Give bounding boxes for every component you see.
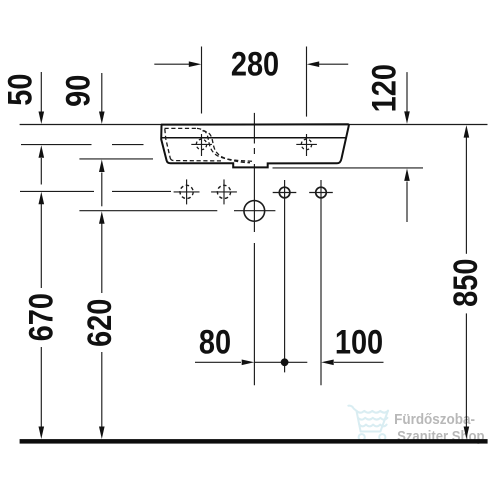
junction dot on line B	[281, 358, 289, 366]
svg-text:100: 100	[335, 322, 383, 361]
dimension 850	[465, 138, 467, 428]
level line L2 (50 target)	[21, 144, 92, 146]
drain centerline (line A)	[253, 113, 255, 144]
80 arrow tail	[195, 361, 241, 363]
svg-text:670: 670	[21, 293, 60, 341]
bowl top dashed	[165, 127, 198, 129]
wall hole circle right	[309, 187, 333, 198]
level line L4 (670 target)	[20, 190, 94, 192]
hidden bowl contour (dashed)	[165, 128, 253, 162]
sink bottom extension line L6 (120 target)	[273, 167, 424, 169]
100 arrow tail	[334, 361, 384, 363]
svg-text:50: 50	[0, 73, 39, 105]
svg-text:80: 80	[199, 322, 231, 361]
280 arrowheads	[189, 61, 202, 67]
dimension 90	[101, 73, 103, 206]
washbasin rim line	[161, 137, 345, 139]
280 extension line left	[201, 47, 203, 114]
floor line	[20, 439, 488, 444]
svg-text:620: 620	[80, 299, 119, 347]
100 arrowhead	[321, 360, 334, 366]
80 arrowhead	[242, 360, 255, 366]
washbasin outline	[161, 124, 349, 167]
dimension 50	[40, 72, 42, 185]
280 extension line right	[306, 47, 308, 117]
bowl right wall inner dashed curve	[203, 131, 251, 163]
wall hole centerline (line C)	[320, 180, 322, 385]
dimension 120	[406, 72, 408, 222]
svg-text:120: 120	[364, 64, 403, 112]
wall hole circle left	[273, 187, 297, 198]
svg-text:90: 90	[58, 75, 97, 107]
drain hole circle	[244, 201, 265, 222]
main line work	[20, 125, 488, 211]
wall top reference line L1	[20, 124, 488, 126]
bowl bottom dashed	[170, 158, 221, 161]
80-100 connector through dot	[254, 361, 307, 363]
bowl left dashed	[165, 129, 171, 158]
280 arrow tails	[154, 63, 190, 65]
dimension 670	[40, 204, 42, 428]
dimension 80/100 extension and centerlines	[195, 113, 384, 385]
faucet hole crosshair left	[191, 134, 212, 156]
svg-text:280: 280	[231, 44, 279, 83]
level line L5 (620 target)	[79, 210, 217, 212]
level line L3 (90 target)	[79, 158, 153, 160]
svg-text:850: 850	[445, 259, 484, 307]
wall fixing hole (dashed) right	[211, 179, 237, 204]
svg-text:Fürdőszoba-: Fürdőszoba-	[394, 411, 475, 428]
faucet hole crosshair right	[296, 134, 317, 156]
wall hole centerline (line B)	[284, 180, 286, 372]
watermark cart icon	[348, 406, 388, 441]
wall fixing hole (dashed) left	[174, 179, 200, 204]
bowl right wall outer dashed curve	[197, 128, 253, 161]
dimension 280	[154, 47, 348, 117]
dimension 620	[101, 224, 103, 428]
